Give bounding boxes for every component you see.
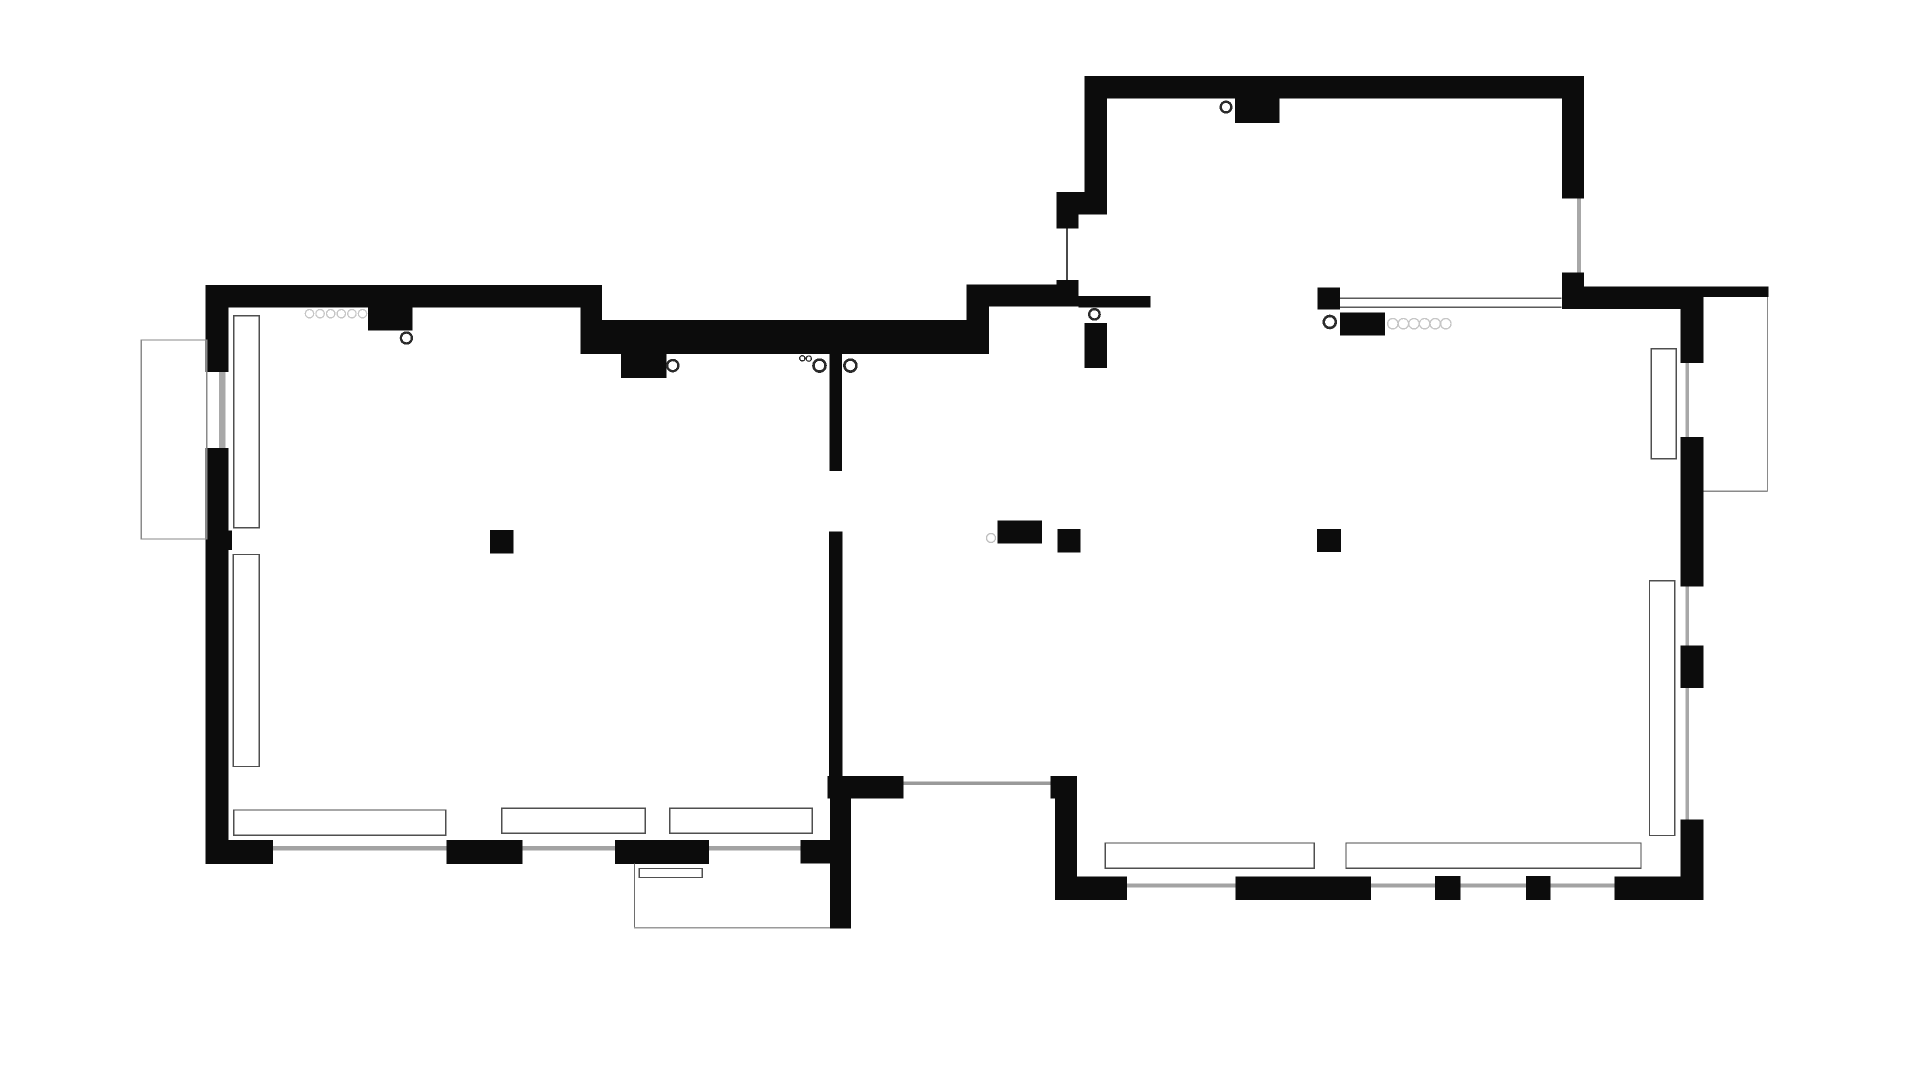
wall: right room east seg1 xyxy=(1680,309,1703,363)
door line: hall to right room xyxy=(904,781,1051,785)
wall: step connector xyxy=(580,308,602,321)
wall: left room south end block xyxy=(801,840,831,864)
symbol circle: top room pier xyxy=(1221,102,1232,113)
window: left room west xyxy=(219,372,226,448)
pier: below band at hall xyxy=(1085,323,1108,368)
window: top room east xyxy=(1577,199,1581,273)
symbol circle: left room north pier xyxy=(401,333,412,344)
balcony outline: east bottom xyxy=(1704,490,1768,492)
wall: middle partition lower xyxy=(830,798,851,928)
wall: middle partition stub xyxy=(828,776,904,798)
symbol circle: hall pier xyxy=(1089,309,1099,319)
wall: left room west lower xyxy=(206,448,229,840)
window double line: right room north bottom xyxy=(1340,306,1562,308)
wall: right room west xyxy=(1055,798,1077,900)
pier: band left pier xyxy=(621,354,666,378)
window: right room south 1 xyxy=(1127,884,1235,888)
wall: middle band lower xyxy=(580,320,989,354)
symbol circle: mid right of wall xyxy=(844,360,856,372)
window: right room south 4 xyxy=(1551,884,1615,888)
decorative circles row: right room xyxy=(1388,319,1451,329)
wall: top room west xyxy=(1084,98,1107,214)
wall: left room southwest corner xyxy=(206,840,274,864)
wall: west bump xyxy=(206,531,233,550)
wall: middle partition upper xyxy=(830,354,842,471)
wall: band thick northeast xyxy=(1584,297,1704,309)
pier: left room south 1 xyxy=(447,840,523,864)
pier: top room ceiling pier xyxy=(1235,98,1279,123)
symbol circle: hall light xyxy=(987,534,996,543)
wall: right room north square xyxy=(1317,287,1340,309)
symbol circle: tiny a xyxy=(800,356,805,361)
window: left room south 2 xyxy=(523,846,615,851)
column: left room center xyxy=(490,530,513,553)
pier: right room south 1 xyxy=(1435,876,1461,900)
window: right room south 3 xyxy=(1461,884,1526,888)
wall: top room west jog block xyxy=(1057,192,1085,214)
symbol circle: mid left of wall xyxy=(814,360,826,372)
wall: top room east corner block xyxy=(1562,273,1584,310)
sill rect: left room west upper xyxy=(234,316,259,528)
wall: band upper right portion xyxy=(1079,296,1151,307)
radiator: left room south 1 xyxy=(234,810,446,835)
wall: left room west upper xyxy=(206,285,229,372)
pier: left room south 2 xyxy=(615,840,709,864)
column: hall square xyxy=(1058,529,1081,552)
door line: top room west xyxy=(1066,229,1068,281)
wall: top room north xyxy=(1085,76,1584,98)
window: right room east 3 xyxy=(1686,688,1689,820)
window: right room south 2 xyxy=(1371,884,1435,888)
balcony outline: west xyxy=(141,340,207,539)
porch step rect xyxy=(639,869,702,878)
radiator: left room south 3 xyxy=(670,808,813,833)
wall: band thin northeast xyxy=(1584,286,1768,297)
cabinet: hall rect xyxy=(998,520,1042,543)
wall: middle partition middle xyxy=(829,531,842,776)
radiator: left room south 2 xyxy=(502,808,645,833)
porch outline: west line xyxy=(633,864,635,928)
pier: right room south 2 xyxy=(1526,876,1551,900)
pier: right room east xyxy=(1680,646,1703,689)
window: right room east 1 xyxy=(1686,363,1689,437)
radiator: right room south 2 xyxy=(1346,843,1641,868)
wall: right room south block xyxy=(1236,877,1372,901)
decorative circles row: left room xyxy=(305,310,366,318)
pier: right room north xyxy=(1340,312,1385,335)
wall: band upper left portion xyxy=(966,284,1078,306)
sill rect: left room west lower xyxy=(233,555,259,767)
wall: left room north xyxy=(206,285,603,308)
wall: cap block above band xyxy=(1057,280,1079,286)
symbol circle: band left pier xyxy=(667,360,678,371)
sill rect: right room east lower xyxy=(1650,581,1675,836)
window double line: right room north top xyxy=(1340,297,1562,299)
sill rect: right room east upper xyxy=(1651,349,1676,459)
balcony outline: east vertical xyxy=(1767,297,1769,491)
symbol circle: right room north xyxy=(1324,316,1336,328)
radiator: right room south 1 xyxy=(1105,843,1314,868)
wall: top room west jog lower block xyxy=(1057,215,1079,229)
wall: right room southwest corner xyxy=(1055,877,1127,901)
wall: right room west corner top xyxy=(1051,776,1077,799)
wall: top room east upper xyxy=(1562,98,1584,198)
window: left room south 3 xyxy=(709,846,801,851)
column: right room center xyxy=(1317,529,1341,552)
window: right room east 2 xyxy=(1686,586,1689,645)
window: left room south 1 xyxy=(273,846,447,851)
wall: right room east corner xyxy=(1680,820,1703,900)
wall: right room southeast corner xyxy=(1614,877,1703,901)
wall: right room east seg2 xyxy=(1680,437,1703,586)
pier: left room north pier xyxy=(368,308,412,331)
porch outline: south line xyxy=(634,927,830,929)
wall: band vertical connector xyxy=(966,284,989,320)
symbol circle: tiny b xyxy=(806,356,811,361)
